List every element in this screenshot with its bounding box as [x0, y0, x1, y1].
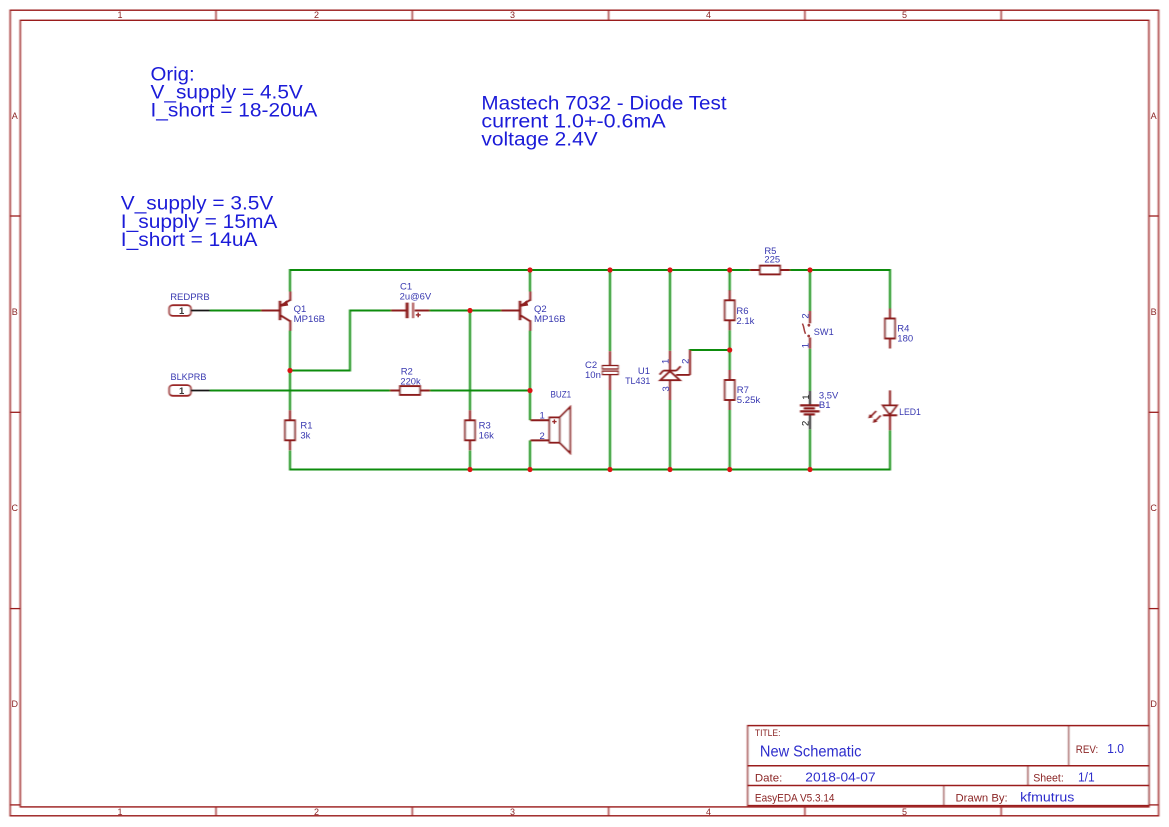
- junction bottom rail R7: [727, 467, 732, 472]
- wire buzzer pin2 to bottom rail: [529, 440, 531, 470]
- svg-text:Sheet:: Sheet:: [1033, 773, 1064, 785]
- wire REDPRB to Q1 base: [210, 310, 261, 312]
- title block box: [748, 726, 1149, 806]
- svg-text:1: 1: [179, 386, 185, 397]
- svg-text:3k: 3k: [300, 430, 310, 441]
- shunt reference U1 TL431: [660, 350, 690, 400]
- wire U1 anode column: [669, 400, 671, 471]
- ruler ticks right: [1149, 216, 1159, 805]
- wire Q2 emitter to top rail: [529, 269, 531, 292]
- svg-text:5.25k: 5.25k: [737, 395, 761, 406]
- svg-text:5: 5: [902, 807, 907, 817]
- svg-text:5: 5: [902, 10, 907, 20]
- wire BLKPRB to R2: [210, 390, 391, 392]
- svg-text:2: 2: [314, 10, 319, 20]
- svg-text:A: A: [12, 111, 18, 121]
- junction bottom rail BUZ1: [527, 467, 532, 472]
- svg-text:Date:: Date:: [755, 772, 782, 784]
- ruler numbers top: [117, 10, 907, 20]
- wire R3 to bottom rail: [469, 451, 471, 471]
- junction Q2 collector node: [527, 388, 532, 393]
- svg-text:C: C: [12, 503, 19, 513]
- wire C1 riser vertical: [349, 311, 351, 372]
- svg-text:SW1: SW1: [814, 327, 834, 338]
- svg-text:1: 1: [179, 306, 185, 317]
- wire U1 cathode column: [669, 269, 671, 351]
- ruler ticks left: [10, 216, 20, 805]
- annotation V_supply block: [121, 194, 278, 251]
- svg-text:2: 2: [314, 807, 319, 817]
- wire SW1 column upper: [809, 269, 811, 311]
- wire Q1 collector to node: [289, 331, 291, 411]
- resistor R3: [465, 410, 475, 450]
- wire C1 to node A: [430, 310, 471, 312]
- svg-text:1: 1: [801, 395, 812, 400]
- junction Q1 collector node: [287, 368, 292, 373]
- svg-text:BLKPRB: BLKPRB: [171, 372, 207, 383]
- svg-text:1/1: 1/1: [1078, 770, 1095, 784]
- resistor R7: [725, 370, 735, 410]
- net port REDPRB: [169, 305, 210, 316]
- svg-text:REDPRB: REDPRB: [170, 292, 210, 303]
- svg-text:1: 1: [801, 343, 812, 348]
- svg-text:I_short = 14uA: I_short = 14uA: [121, 230, 258, 251]
- transistor Q2: [501, 292, 530, 331]
- resistor R2: [390, 386, 430, 395]
- wire U1 ref to R6-R7 node: [689, 349, 730, 351]
- wire Q1 emitter to top rail: [289, 269, 291, 292]
- svg-text:1: 1: [540, 410, 545, 421]
- svg-text:180: 180: [897, 333, 913, 344]
- svg-text:B: B: [12, 307, 18, 317]
- capacitor C1 positive plate: [412, 303, 415, 319]
- wire C2 column lower: [609, 390, 611, 471]
- wire node A to Q2 base: [469, 310, 501, 312]
- wire right column upper: [889, 269, 891, 309]
- svg-text:10n: 10n: [585, 370, 601, 381]
- wire node A down R3 column: [469, 310, 471, 411]
- svg-text:2018-04-07: 2018-04-07: [805, 770, 875, 784]
- capacitor C1 plus sign: [416, 313, 421, 318]
- transistor Q1: [261, 292, 290, 331]
- ruler numbers bottom: [117, 807, 907, 817]
- svg-text:4: 4: [706, 807, 711, 817]
- svg-text:A: A: [1151, 111, 1157, 121]
- svg-text:BUZ1: BUZ1: [551, 389, 572, 400]
- svg-text:C: C: [1150, 503, 1157, 513]
- svg-text:1: 1: [117, 807, 122, 817]
- capacitor C1: [391, 303, 430, 319]
- junction top rail U1: [667, 267, 672, 272]
- junction top rail C2: [607, 267, 612, 272]
- svg-text:Drawn By:: Drawn By:: [956, 793, 1008, 805]
- junction top rail SW1: [807, 267, 812, 272]
- svg-text:D: D: [12, 699, 19, 709]
- svg-text:MP16B: MP16B: [534, 314, 566, 325]
- wire SW1 to B1: [809, 349, 811, 391]
- svg-text:2: 2: [540, 431, 545, 442]
- svg-text:B1: B1: [819, 400, 831, 411]
- svg-text:2u@6V: 2u@6V: [400, 292, 432, 303]
- wire C2 column upper: [609, 269, 611, 351]
- wire node down to buzzer pin1: [529, 390, 531, 421]
- resistor R5: [750, 266, 790, 275]
- junction top rail R6: [727, 267, 732, 272]
- svg-text:4: 4: [706, 10, 711, 20]
- svg-text:3: 3: [661, 386, 672, 391]
- transistor Q2 emitter arrow: [520, 300, 528, 306]
- wire Q2 collector to node: [529, 331, 531, 392]
- LED LED1: [883, 390, 897, 430]
- buzzer BUZ1: [531, 407, 571, 453]
- wire right column lower: [889, 430, 891, 470]
- svg-text:1.0: 1.0: [1107, 742, 1124, 756]
- junction bottom rail R3: [467, 467, 472, 472]
- wire bottom rail: [289, 469, 890, 471]
- junction bottom rail B1: [807, 467, 812, 472]
- annotation Orig block: [151, 65, 318, 122]
- wire top rail right: [790, 269, 890, 271]
- svg-text:1: 1: [117, 10, 122, 20]
- svg-text:EasyEDA V5.3.14: EasyEDA V5.3.14: [755, 793, 835, 805]
- net port BLKPRB: [169, 385, 210, 396]
- ruler ticks top: [216, 10, 1001, 20]
- svg-text:LED1: LED1: [899, 407, 921, 418]
- ruler letters right: [1150, 111, 1157, 709]
- transistor Q1 emitter arrow: [280, 300, 288, 306]
- svg-text:TL431: TL431: [625, 376, 650, 387]
- svg-text:kfmutrus: kfmutrus: [1020, 791, 1074, 805]
- svg-text:3: 3: [510, 807, 515, 817]
- svg-text:220k: 220k: [400, 377, 421, 388]
- junction top rail Q2: [527, 267, 532, 272]
- switch SW1: [809, 311, 811, 349]
- svg-text:TITLE:: TITLE:: [755, 728, 781, 739]
- wire R6 column upper: [729, 269, 731, 291]
- svg-text:D: D: [1150, 699, 1157, 709]
- switch SW1 contacts and blade: [802, 324, 810, 338]
- ruler ticks bottom: [216, 807, 1001, 816]
- battery B1: [800, 391, 820, 429]
- resistor R1: [285, 410, 295, 450]
- wire node to C1 riser horizontal: [290, 370, 350, 372]
- junction bottom rail C2: [607, 467, 612, 472]
- svg-text:3: 3: [510, 10, 515, 20]
- capacitor C2: [602, 351, 618, 390]
- wire R6 to node B: [729, 330, 731, 351]
- svg-text:B: B: [1151, 307, 1157, 317]
- wire riser to C1: [349, 310, 391, 312]
- svg-text:2: 2: [681, 359, 692, 364]
- svg-text:New Schematic: New Schematic: [760, 743, 862, 760]
- svg-text:I_short = 18-20uA: I_short = 18-20uA: [151, 101, 318, 122]
- ruler letters left: [12, 111, 19, 709]
- buzzer BUZ1 plus sign: [552, 419, 556, 423]
- svg-text:16k: 16k: [479, 430, 495, 441]
- svg-text:2: 2: [801, 421, 812, 426]
- resistor R4: [885, 309, 895, 349]
- svg-text:1: 1: [660, 359, 671, 364]
- wire top rail left: [289, 269, 750, 271]
- annotation Mastech block: [481, 94, 727, 151]
- junction node A: [467, 308, 472, 313]
- svg-text:voltage 2.4V: voltage 2.4V: [481, 129, 598, 150]
- LED1 light arrows: [868, 411, 880, 423]
- svg-text:2: 2: [801, 313, 812, 318]
- wire R1 to bottom rail: [289, 451, 291, 471]
- svg-text:225: 225: [764, 255, 780, 266]
- wire node B to R7: [729, 349, 731, 370]
- svg-text:REV:: REV:: [1076, 744, 1098, 756]
- svg-text:2.1k: 2.1k: [736, 316, 754, 327]
- svg-text:MP16B: MP16B: [294, 314, 326, 325]
- resistor R6: [725, 290, 735, 330]
- wire R7 to bottom rail: [729, 410, 731, 471]
- wire B1 to bottom rail: [809, 429, 811, 470]
- junction bottom rail U1: [667, 467, 672, 472]
- junction node B R6-R7: [727, 347, 732, 352]
- wire R2 to Q2 collector node: [430, 390, 531, 392]
